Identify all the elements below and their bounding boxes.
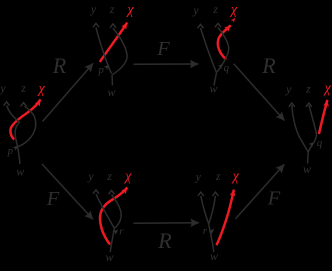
node3 tick under z <box>215 23 221 27</box>
node6 grey strand from z <box>209 196 216 224</box>
node6 red strand to chi <box>216 190 234 246</box>
node5 red strand to chi <box>100 187 127 244</box>
svg-text:p: p <box>7 145 14 157</box>
svg-text:R: R <box>157 228 172 253</box>
svg-text:y: y <box>195 169 202 183</box>
arrow F: bottom-right node to right node <box>236 164 285 219</box>
node4 grey strand from y <box>292 105 308 152</box>
node3 grey strand from y <box>201 28 217 73</box>
arrow F: left node to bottom-left node <box>42 164 93 220</box>
node1 stem wire <box>18 147 20 164</box>
node2 red strand to chi <box>100 23 127 62</box>
node5 stem wire <box>110 228 114 252</box>
svg-text:y: y <box>192 3 199 17</box>
svg-text:R: R <box>52 53 67 78</box>
node3 red strand to chi <box>218 25 231 59</box>
node1 red strand to chi <box>10 99 40 139</box>
svg-text:z: z <box>106 169 112 183</box>
svg-text:y: y <box>90 2 97 16</box>
node2 grey strand loop to z <box>113 28 128 75</box>
svg-text:w: w <box>107 85 115 99</box>
svg-text:F: F <box>156 38 170 60</box>
svg-text:q: q <box>317 137 323 149</box>
node6 stem wire <box>209 224 214 252</box>
arrow R: top-right node to right node <box>234 64 285 121</box>
svg-text:p: p <box>97 64 104 76</box>
svg-text:z: z <box>109 2 115 16</box>
svg-text:F: F <box>267 188 281 210</box>
node1 grey strand loop to z <box>18 106 36 146</box>
node4 junction tick <box>309 140 316 147</box>
svg-text:z: z <box>215 169 221 183</box>
node3 stem wire <box>214 73 217 86</box>
node6 grey strand from y <box>201 196 209 224</box>
svg-text:w: w <box>210 249 218 263</box>
node6 tick under z <box>212 192 218 196</box>
node1 tick under z <box>21 103 27 107</box>
node3 grey strand loop to z <box>217 28 229 73</box>
arrow R: bottom-left node to bottom-right node <box>134 222 200 224</box>
svg-text:y: y <box>285 82 292 96</box>
node2 junction tick <box>104 63 111 70</box>
node2 tick under z <box>110 24 116 28</box>
svg-text:y: y <box>0 81 6 95</box>
node1 junction tick <box>12 144 19 151</box>
svg-text:z: z <box>305 82 311 96</box>
svg-text:y: y <box>87 169 94 183</box>
svg-text:z: z <box>20 81 26 95</box>
svg-text:F: F <box>46 188 60 210</box>
node5 tick under z <box>109 190 115 194</box>
node6 tick under y <box>198 192 204 196</box>
node2 stem wire <box>111 75 113 86</box>
svg-text:χ: χ <box>229 2 238 18</box>
node4 tick under y <box>289 103 295 107</box>
svg-text:χ: χ <box>123 169 132 185</box>
svg-text:χ: χ <box>36 81 45 97</box>
node3 junction tick <box>218 62 225 69</box>
svg-text:z: z <box>212 2 218 16</box>
svg-text:w: w <box>105 250 113 264</box>
node3 tick under y <box>198 24 204 28</box>
node4 stem wire <box>307 152 310 164</box>
svg-text:q: q <box>224 62 230 74</box>
node5 tick under y <box>93 190 99 194</box>
node4 tick under z <box>306 103 312 107</box>
svg-text:w: w <box>16 165 24 179</box>
node2 tick under y <box>93 23 99 27</box>
node5 junction tick <box>112 228 119 235</box>
svg-text:w: w <box>209 82 217 96</box>
svg-text:R: R <box>261 53 276 78</box>
node4 grey strand from z <box>308 105 316 152</box>
svg-text:χ: χ <box>231 168 240 184</box>
svg-text:w: w <box>303 162 311 176</box>
node2 grey strand from y <box>96 28 112 74</box>
node5 grey strand from z <box>112 195 122 229</box>
arrow F: top-left node to top-right node <box>134 63 199 65</box>
svg-text:χ: χ <box>323 81 332 97</box>
svg-text:χ: χ <box>125 2 134 18</box>
node5 grey strand from y <box>96 194 114 228</box>
node1 tick under y <box>4 102 10 106</box>
arrow R: left node to top-left node <box>43 63 94 121</box>
node1 grey strand from y <box>7 106 20 147</box>
node6 junction tick <box>209 227 216 234</box>
node3 red tick under chi <box>231 17 237 23</box>
node4 red strand to chi <box>319 100 327 134</box>
